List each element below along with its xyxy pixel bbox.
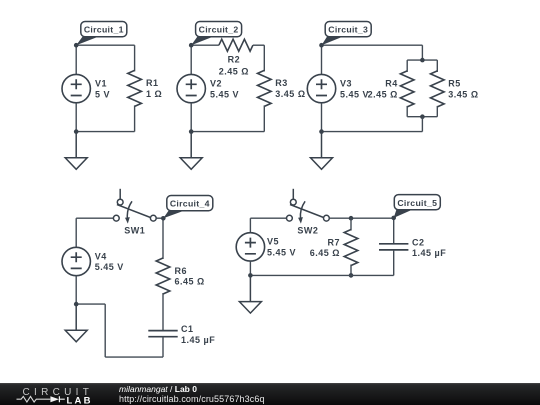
svg-text:Circuit_3: Circuit_3 (328, 25, 368, 35)
node (junction dot) (319, 129, 324, 134)
ground (65, 304, 87, 342)
svg-text:SW2: SW2 (297, 226, 318, 236)
svg-text:1.45 µF: 1.45 µF (412, 248, 446, 258)
wire (350, 265, 352, 276)
svg-text:R7: R7 (327, 237, 340, 247)
svg-text:5.45 V: 5.45 V (210, 89, 239, 99)
node (junction dot) (420, 58, 425, 63)
wire (162, 293, 164, 331)
wire (322, 44, 423, 46)
voltage source V5 (236, 233, 264, 261)
wire (105, 356, 163, 358)
wire (329, 217, 393, 219)
svg-text:R2: R2 (228, 54, 241, 64)
svg-text:Circuit_1: Circuit_1 (84, 25, 124, 35)
capacitor C2 (379, 244, 408, 250)
switch SW1 (SPDT) (113, 189, 156, 221)
wire (75, 276, 77, 304)
wire (253, 44, 264, 46)
svg-text:R4: R4 (385, 79, 398, 89)
wire (321, 45, 323, 74)
wire (134, 45, 136, 71)
svg-text:V5: V5 (267, 237, 279, 247)
node (junction dot) (74, 302, 79, 307)
svg-text:2.45 Ω: 2.45 Ω (368, 90, 398, 100)
svg-text:3.45 Ω: 3.45 Ω (448, 90, 478, 100)
svg-text:V4: V4 (95, 251, 107, 261)
wire (263, 105, 265, 131)
wire (104, 304, 106, 357)
svg-text:R1: R1 (146, 78, 159, 88)
wire (406, 60, 408, 72)
svg-text:V1: V1 (95, 78, 107, 88)
wire (162, 337, 164, 357)
node (junction dot) (189, 129, 194, 134)
wire (436, 60, 438, 72)
svg-text:Circuit_5: Circuit_5 (397, 198, 437, 208)
resistor R3 (258, 70, 272, 106)
wire (263, 45, 265, 71)
node (junction dot) (349, 216, 354, 221)
wire (393, 218, 395, 244)
svg-text:1.45 µF: 1.45 µF (181, 335, 215, 345)
ground (311, 132, 333, 170)
wire (75, 218, 77, 247)
wire (249, 261, 251, 275)
wire (321, 103, 323, 132)
voltage source V2 (177, 74, 205, 102)
svg-text:5 V: 5 V (95, 89, 110, 99)
wire (406, 106, 408, 117)
footer bar (0, 383, 540, 405)
wire (436, 106, 438, 117)
svg-text:6.45 Ω: 6.45 Ω (310, 248, 340, 258)
wire (350, 218, 352, 230)
switch SW2 (SPDT) (287, 189, 330, 221)
ground (65, 132, 87, 170)
node (junction dot) (74, 129, 79, 134)
svg-text:5.45 V: 5.45 V (267, 248, 296, 258)
wire (393, 250, 395, 275)
wire (162, 218, 164, 259)
wire (76, 44, 134, 46)
capacitor C1 (148, 331, 177, 337)
wire (76, 217, 113, 219)
svg-text:Circuit_4: Circuit_4 (170, 199, 210, 209)
wire (322, 131, 423, 133)
svg-text:V2: V2 (210, 78, 222, 88)
wire (191, 44, 219, 46)
resistor R7 (344, 230, 358, 266)
wire (134, 105, 136, 131)
net label Circuit_3 (319, 22, 371, 48)
net label Circuit_1 (74, 22, 127, 48)
voltage source V3 (307, 74, 335, 102)
wire (191, 131, 264, 133)
wire (190, 103, 192, 132)
wire (75, 45, 77, 74)
svg-text:5.45 V: 5.45 V (340, 89, 369, 99)
resistor R6 (156, 258, 170, 294)
svg-text:SW1: SW1 (124, 226, 145, 236)
voltage source V1 (62, 74, 90, 102)
resistor R2 (219, 39, 253, 51)
svg-text:3.45 Ω: 3.45 Ω (275, 89, 305, 99)
voltage source V4 (62, 247, 90, 275)
svg-text:V3: V3 (340, 78, 352, 88)
ground (239, 275, 261, 313)
wire (76, 131, 134, 133)
ground (180, 132, 202, 170)
svg-text:C2: C2 (412, 237, 425, 247)
net label Circuit_5 (391, 195, 440, 221)
svg-text:1 Ω: 1 Ω (146, 89, 162, 99)
wire (407, 116, 437, 118)
wire (156, 217, 163, 219)
wire (407, 59, 437, 61)
wire (421, 117, 423, 132)
node (junction dot) (248, 273, 253, 278)
resistor R5 (431, 71, 445, 107)
svg-text:Circuit_2: Circuit_2 (199, 25, 239, 35)
svg-text:2.45 Ω: 2.45 Ω (219, 67, 249, 77)
wire (190, 45, 192, 74)
node (junction dot) (420, 114, 425, 119)
resistor R1 (128, 70, 142, 106)
wire (250, 217, 286, 219)
footer text (119, 384, 197, 394)
svg-text:R5: R5 (448, 79, 461, 89)
svg-text:6.45 Ω: 6.45 Ω (175, 277, 205, 287)
wire (76, 303, 105, 305)
svg-text:R6: R6 (175, 266, 188, 276)
net label Circuit_2 (189, 22, 242, 48)
svg-text:C1: C1 (181, 324, 194, 334)
CircuitLab logo (0, 383, 110, 405)
svg-text:5.45 V: 5.45 V (95, 262, 124, 272)
wire (75, 103, 77, 132)
svg-text:R3: R3 (275, 78, 288, 88)
net label Circuit_4 (161, 196, 213, 221)
wire (421, 45, 423, 60)
resistor R4 (400, 71, 414, 107)
node (junction dot) (349, 273, 354, 278)
wire (249, 218, 251, 233)
wire (250, 274, 393, 276)
svg-text:LAB: LAB (67, 395, 93, 405)
